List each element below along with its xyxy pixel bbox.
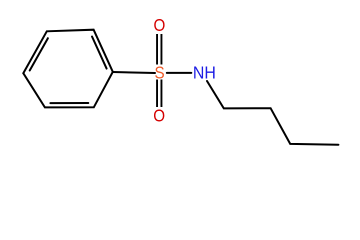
svg-text:O: O — [153, 16, 165, 35]
svg-text:NH: NH — [193, 63, 216, 83]
svg-text:O: O — [153, 106, 165, 125]
svg-text:S: S — [155, 64, 165, 83]
